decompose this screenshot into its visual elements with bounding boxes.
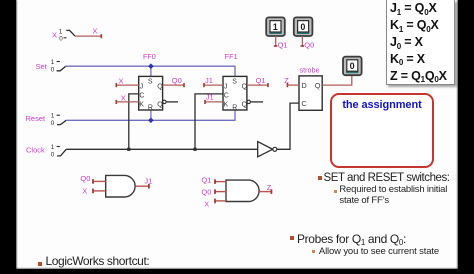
svg-text:Q0: Q0 xyxy=(172,76,182,85)
FF0 Q output stub, net Q0 xyxy=(163,76,184,87)
svg-text:Set: Set xyxy=(36,62,48,71)
inverter (clock) xyxy=(258,142,277,157)
svg-text:K: K xyxy=(139,101,144,108)
svg-text:K: K xyxy=(224,101,229,108)
FF0 Qbar bubble and stub xyxy=(163,100,178,103)
svg-text:Clock: Clock xyxy=(26,146,45,155)
svg-text:J1: J1 xyxy=(144,177,152,186)
AND gate A2 (Z = Q1 Q0 X) xyxy=(226,180,259,201)
bullet: LogicWorks shortcut xyxy=(38,262,42,266)
svg-text:Q1: Q1 xyxy=(278,40,288,49)
A2 input stub Q0 xyxy=(201,188,226,197)
switch X1/X0 input switch xyxy=(52,29,75,43)
callout box "the assignment" xyxy=(330,93,434,168)
wire clock riser to FF0.C xyxy=(129,94,139,149)
junction Reset-FF0.R xyxy=(148,117,154,123)
A2 input stub Q1 xyxy=(201,175,226,184)
wire Reset net xyxy=(66,110,235,120)
AND gate A1 (J1 = Q0 X) xyxy=(106,175,135,197)
sub-bullet: Allow you to see current state xyxy=(312,250,315,253)
probe Q0 (reads 0) xyxy=(294,17,313,36)
wire inverter out to strobe C xyxy=(277,103,299,149)
svg-text:Z: Z xyxy=(267,183,272,192)
svg-text:R: R xyxy=(232,105,237,112)
svg-text:Reset: Reset xyxy=(26,114,47,123)
right black bar xyxy=(458,0,474,274)
svg-text:strobe: strobe xyxy=(300,65,320,74)
svg-text:0: 0 xyxy=(59,36,63,43)
svg-text:J: J xyxy=(224,84,228,91)
FF0 pin letters xyxy=(139,78,163,111)
svg-text:C: C xyxy=(139,93,144,100)
svg-text:R: R xyxy=(148,105,153,112)
svg-text:1: 1 xyxy=(51,59,55,66)
svg-text:Q: Q xyxy=(315,81,321,90)
wire clock riser to FF1.C xyxy=(195,94,223,149)
wire strobe Q to probe xyxy=(322,75,352,85)
svg-text:Q0: Q0 xyxy=(80,174,90,183)
svg-text:X: X xyxy=(93,27,98,36)
switch Clock xyxy=(26,144,66,158)
svg-text:Q: Q xyxy=(242,84,248,91)
equations box xyxy=(386,0,455,85)
wire probe Q1 stub xyxy=(274,36,288,49)
svg-text:FF0: FF0 xyxy=(143,52,156,61)
FF1 Q output stub, net Q1 xyxy=(247,76,268,87)
junction clock-FF1 xyxy=(193,148,196,151)
A2 output stub Z xyxy=(259,183,272,194)
svg-text:S: S xyxy=(232,78,237,85)
svg-text:J: J xyxy=(140,84,144,91)
svg-text:0: 0 xyxy=(51,120,55,127)
svg-text:0: 0 xyxy=(51,66,55,73)
flip-flop FF0 body xyxy=(139,76,163,110)
FF0 K input stub, net X xyxy=(116,93,138,104)
svg-text:D: D xyxy=(301,81,306,90)
svg-text:1: 1 xyxy=(51,144,55,151)
FF0 J input stub, net X xyxy=(116,77,138,88)
A1 output stub J1 xyxy=(135,177,152,189)
svg-text:Q1: Q1 xyxy=(201,175,211,184)
FF1 K input stub, net J1 xyxy=(205,93,223,104)
wire net X from switch xyxy=(75,27,101,39)
svg-text:1: 1 xyxy=(59,29,63,36)
left black bar xyxy=(0,0,16,274)
flip-flop FF1 body xyxy=(223,76,247,110)
FF1 J input stub, net J1 xyxy=(204,76,223,87)
svg-text:0: 0 xyxy=(300,22,305,32)
svg-text:1: 1 xyxy=(273,22,278,32)
svg-text:X: X xyxy=(121,93,126,102)
svg-text:1: 1 xyxy=(51,113,55,120)
A1 input stub Q0 xyxy=(80,174,105,184)
A1 input stub X xyxy=(82,187,106,196)
svg-text:Z: Z xyxy=(284,76,289,85)
svg-text:J1: J1 xyxy=(205,76,213,85)
svg-text:FF1: FF1 xyxy=(225,52,238,61)
wire probe Q0 stub xyxy=(301,36,315,49)
svg-text:0: 0 xyxy=(51,151,55,158)
probe strobe output (reads 0) xyxy=(343,57,362,76)
probe Q1 (reads 1) xyxy=(266,17,285,36)
FF1 pin letters xyxy=(224,78,248,111)
flip-flop strobe body (D FF) xyxy=(299,76,322,110)
svg-text:X: X xyxy=(52,31,57,40)
svg-text:Q0: Q0 xyxy=(304,40,314,49)
svg-text:C: C xyxy=(301,99,307,108)
wire Set net xyxy=(66,66,235,76)
wire Clock net xyxy=(66,148,272,150)
svg-text:X: X xyxy=(82,187,87,196)
svg-text:X: X xyxy=(204,199,209,208)
svg-text:Q0: Q0 xyxy=(201,188,211,197)
bullet: SET and RESET switches xyxy=(318,176,322,180)
switch Reset xyxy=(26,113,67,127)
svg-text:C: C xyxy=(224,93,229,100)
svg-text:S: S xyxy=(148,78,153,85)
svg-text:J1: J1 xyxy=(206,93,214,102)
bullet: Probes for Q1 and Q0 xyxy=(290,236,294,240)
strobe D input stub, net Z xyxy=(284,76,299,87)
junction Set-FF0.S xyxy=(148,63,154,69)
switch Set xyxy=(36,59,66,73)
equations text xyxy=(390,1,447,86)
callout text xyxy=(330,99,434,111)
svg-text:0: 0 xyxy=(350,61,355,71)
svg-text:Q: Q xyxy=(157,84,163,91)
A2 input stub X xyxy=(204,199,226,209)
junction clock-FF0 xyxy=(127,148,130,151)
strobe pin letters xyxy=(301,81,320,108)
sub-bullet: Required to establish initial state of FF's xyxy=(334,190,337,193)
svg-text:X: X xyxy=(119,77,124,86)
svg-text:Q1: Q1 xyxy=(256,76,266,85)
bottom black bar xyxy=(0,269,474,274)
FF1 Qbar bubble and stub xyxy=(247,100,263,103)
